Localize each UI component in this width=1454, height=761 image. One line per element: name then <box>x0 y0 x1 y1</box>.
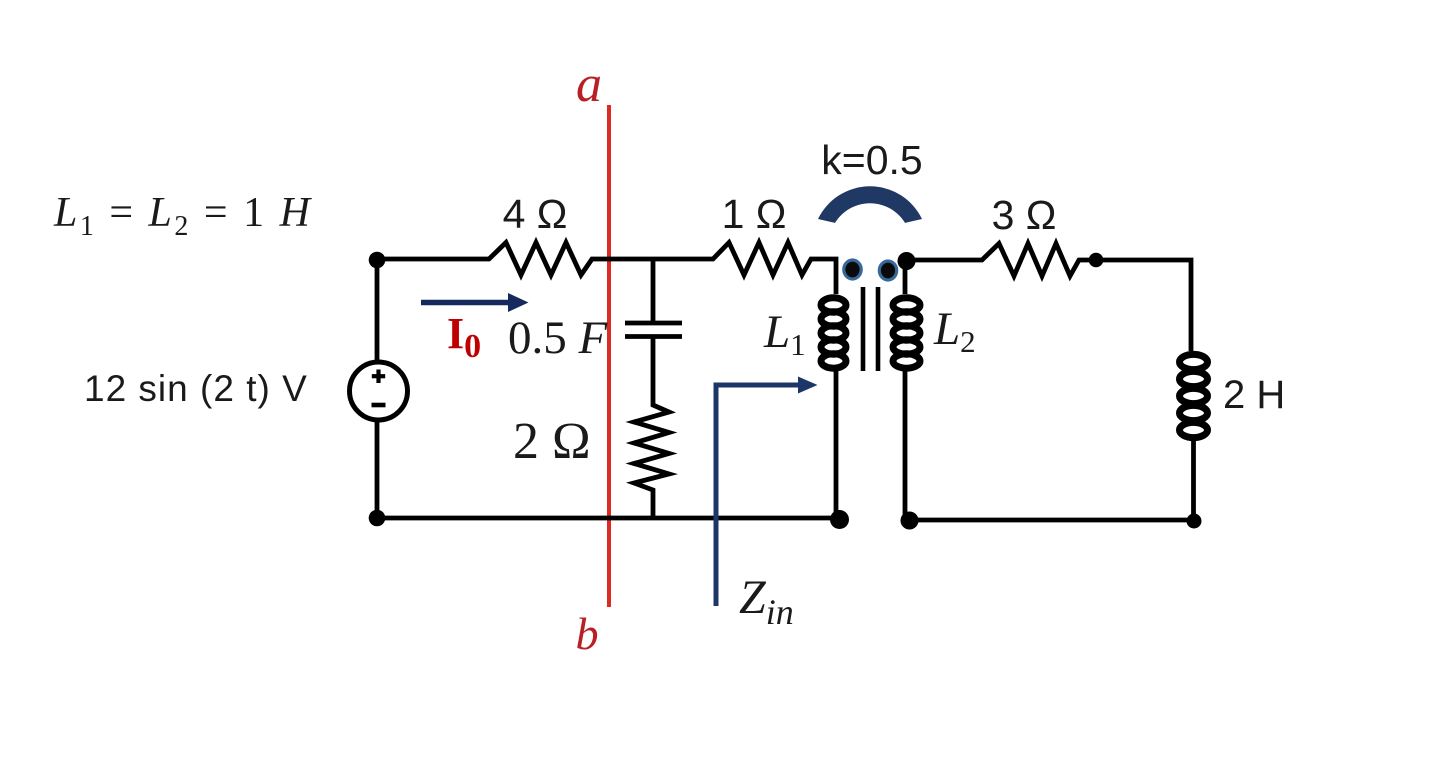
svg-text:b: b <box>576 608 599 659</box>
svg-text:0.5 F: 0.5 F <box>508 312 609 364</box>
svg-text:3 Ω: 3 Ω <box>992 192 1057 238</box>
svg-text:a: a <box>576 56 602 113</box>
svg-text:12 sin (2 t) V: 12 sin (2 t) V <box>84 368 308 409</box>
svg-text:2 Ω: 2 Ω <box>513 413 591 470</box>
svg-text:2 H: 2 H <box>1223 373 1285 417</box>
svg-text:k=0.5: k=0.5 <box>821 137 922 183</box>
svg-text:4 Ω: 4 Ω <box>503 191 568 237</box>
svg-text:1 Ω: 1 Ω <box>722 191 787 237</box>
